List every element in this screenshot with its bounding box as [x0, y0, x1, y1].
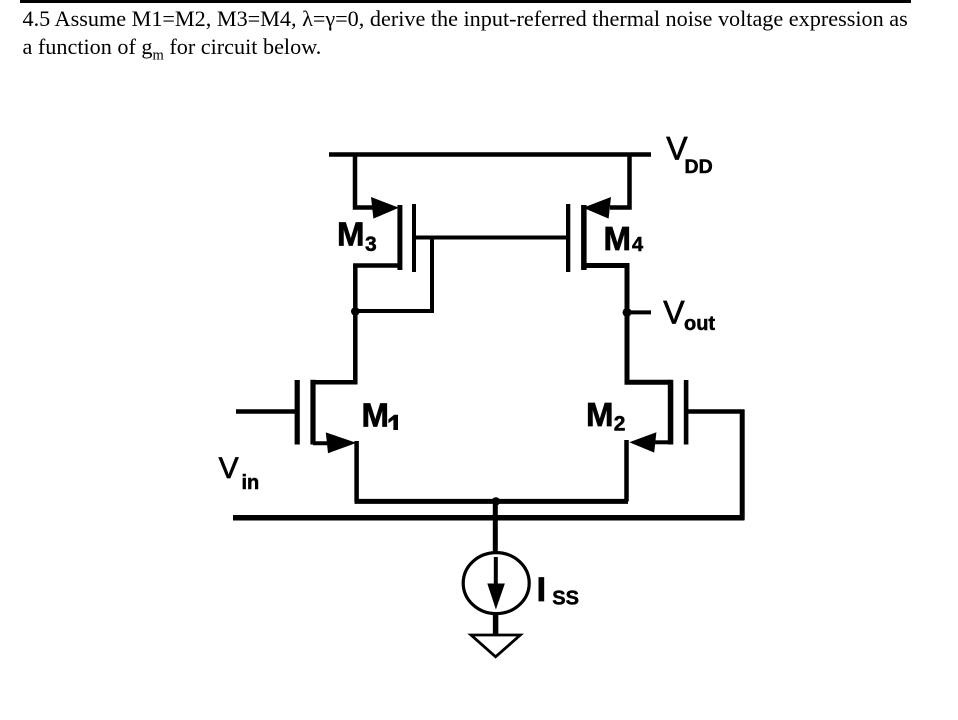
wire right vertical: [740, 410, 745, 520]
label ISS: [537, 571, 579, 610]
svg-text:M: M: [362, 396, 390, 433]
label M1: [362, 396, 399, 433]
node tail junction: [492, 497, 500, 505]
label VDD: [666, 131, 712, 179]
wire M2 gate lead: [686, 409, 744, 414]
svg-text:4: 4: [632, 234, 644, 256]
transistor M3: [371, 197, 416, 272]
wire VDD to M3 source: [355, 153, 373, 208]
transistor M1: [295, 380, 357, 453]
label M4: [604, 220, 645, 257]
transistor M2: [629, 380, 688, 453]
wire Vout tap: [627, 310, 651, 314]
svg-text:SS: SS: [552, 588, 579, 610]
label M2: [586, 396, 625, 435]
svg-text:2: 2: [614, 413, 626, 436]
wire M3 gate-drain tie: [356, 236, 432, 312]
svg-text:M: M: [604, 220, 632, 257]
wire M2 source down: [624, 440, 629, 501]
wire M1 source down: [354, 441, 359, 501]
wire common source rail: [355, 499, 629, 504]
wire tail to current source: [493, 501, 498, 553]
current source ISS: [463, 553, 529, 614]
wire M3 drain to M1 drain: [313, 266, 399, 383]
node Vout junction: [623, 308, 632, 317]
svg-text:M: M: [586, 396, 614, 433]
wire VDD to M4 source: [610, 153, 630, 208]
ground: [471, 635, 520, 657]
svg-text:3: 3: [365, 233, 377, 256]
label Vout: [663, 295, 715, 336]
wire Vin to M1 gate: [236, 409, 297, 414]
wire current source to ground: [493, 612, 499, 635]
transistor M4: [566, 197, 611, 272]
wire Vin return: [233, 515, 744, 521]
label Vin: [219, 452, 260, 494]
svg-text:V: V: [219, 452, 239, 485]
wire VDD rail: [329, 152, 651, 157]
label M3: [337, 216, 377, 257]
svg-text:M: M: [337, 216, 365, 253]
node M3 drain junction: [351, 307, 360, 316]
top rule: [20, 0, 911, 3]
svg-text:I: I: [537, 571, 546, 609]
wire M3 gate to M4 gate: [413, 236, 569, 240]
wire M4 drain to M2 drain: [584, 266, 671, 383]
svg-text:DD: DD: [685, 156, 713, 178]
problem statement text: [23, 5, 908, 69]
svg-text:in: in: [242, 472, 260, 494]
svg-text:out: out: [684, 313, 715, 335]
svg-text:V: V: [663, 295, 685, 331]
